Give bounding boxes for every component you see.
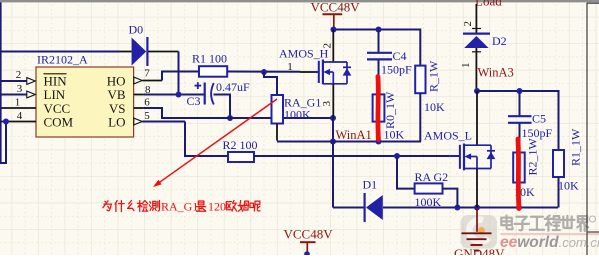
svg-text:Load: Load (475, 0, 502, 9)
svg-text:0.47uF: 0.47uF (216, 80, 250, 94)
wire R0_1W bottom (378, 122, 380, 142)
wire AMOS_H drain pin (332, 30, 334, 63)
wire C3 to VS wire (214, 95, 231, 119)
wire C5 to R2_1W (519, 123, 521, 153)
svg-text:AMOS_L: AMOS_L (424, 129, 472, 143)
resistor R0_1W (373, 94, 385, 121)
wire WinA1 vertical (332, 118, 334, 142)
wire WinA3 to C5 (519, 91, 521, 116)
wire gate node to RA_G1 (264, 72, 277, 95)
wire VS pin6 (134, 107, 144, 109)
svg-text:120: 120 (208, 200, 226, 214)
svg-text:WinA3: WinA3 (478, 66, 514, 80)
svg-text:R1_1W: R1_1W (569, 128, 583, 166)
IC U1 IR2102_A body (36, 67, 134, 137)
watermark underline (501, 233, 599, 235)
wire D0 anode from left edge (0, 51, 119, 53)
power VCC48V bottom symbol (300, 241, 316, 243)
svg-text:2: 2 (16, 69, 22, 81)
annotation text: 为什么检测RA_G1是120欧姆呢 (103, 201, 112, 211)
transistor Q-AMOS_L (459, 145, 461, 169)
svg-text:RA_G1: RA_G1 (161, 200, 198, 214)
svg-text:VCC48V: VCC48V (311, 0, 361, 15)
svg-text:100K: 100K (284, 108, 311, 122)
svg-text:4: 4 (17, 110, 23, 122)
wire HIN pin2 (0, 80, 27, 82)
wire RA_G2 right (443, 189, 458, 208)
svg-text:1: 1 (287, 61, 293, 73)
svg-text:5: 5 (144, 110, 150, 122)
wire AMOS_L source pin (476, 169, 478, 208)
wire gate-L to RA_G2 (397, 156, 415, 189)
junction gate-L node (394, 153, 400, 159)
wire R1 to AMOS_H gate (227, 71, 300, 73)
resistor R1_1W (553, 150, 564, 177)
transistor Q-AMOS_H (318, 61, 320, 83)
junction VCC-drain (331, 27, 337, 33)
wire C4 to R0_1W (378, 60, 380, 94)
wire RA_G1 bottom (276, 124, 278, 141)
junction VB-D0 (176, 92, 182, 98)
svg-text:2: 2 (462, 21, 474, 27)
junction WinA3 (474, 88, 480, 94)
svg-text:1: 1 (460, 63, 472, 69)
junction at bottom edge (304, 251, 310, 257)
junction WinA1-R0 (376, 139, 382, 145)
wire AMOS_L drain pin (476, 91, 478, 145)
svg-text:GND48V: GND48V (454, 246, 505, 255)
svg-text:R0_1W: R0_1W (383, 91, 397, 129)
svg-text:R1 100: R1 100 (192, 52, 227, 66)
svg-text:10K: 10K (384, 128, 405, 142)
svg-text:10K: 10K (558, 179, 579, 193)
pin 2 input triangle (27, 78, 36, 85)
diode D2 (463, 32, 490, 34)
resistor RA_G1 (272, 95, 284, 124)
junction on COM wire (3, 119, 9, 125)
capacitor C4 (367, 52, 392, 54)
svg-text:eeworld.com.cn: eeworld.com.cn (500, 234, 599, 251)
annotation red mark over R2_1W (518, 139, 519, 209)
ground GND48V symbol (476, 208, 478, 232)
wire WinA1 down to D1 (332, 142, 334, 208)
annotation red mark over R0_1W (375, 77, 380, 140)
svg-text:3: 3 (17, 83, 23, 95)
wire R2 to AMOS_L gate (254, 155, 450, 157)
annotation arrow line (159, 99, 277, 183)
svg-text:LIN: LIN (44, 87, 66, 102)
junction VCC-C4 (376, 27, 382, 33)
watermark text 电子工程世界 (501, 216, 512, 230)
svg-text:C5: C5 (532, 112, 546, 126)
wire WinA1 horizontal (277, 141, 421, 143)
svg-text:R_1W: R_1W (427, 60, 441, 92)
resistor R2 (228, 152, 254, 162)
svg-text:D1: D1 (363, 178, 378, 192)
wire LIN pin3 (0, 94, 27, 96)
diode D1 (364, 193, 366, 222)
wire VCC to C4 (378, 30, 380, 53)
pin 5 output triangle (134, 118, 143, 125)
wire along left edge (0, 2, 2, 163)
wire VCC bus (334, 30, 421, 66)
svg-text:LO: LO (108, 115, 125, 130)
capacitor C5 (508, 115, 532, 117)
capacitor C3 (204, 83, 206, 105)
pin 3 input triangle (27, 91, 36, 98)
svg-text:R2_1W: R2_1W (526, 137, 540, 175)
wire VCC pin1 (0, 107, 36, 109)
resistor RA_G2 (415, 183, 443, 193)
wire AMOS_H source pin (332, 84, 334, 118)
svg-text:3: 3 (321, 101, 333, 107)
junction WinA1 (330, 139, 336, 145)
svg-text:2: 2 (322, 43, 334, 49)
svg-text:100K: 100K (415, 195, 442, 209)
svg-text:RA G2: RA G2 (415, 170, 449, 184)
watermark logo (461, 215, 498, 249)
junction D1-RAG2 (454, 205, 460, 211)
resistor R_1W (415, 66, 425, 94)
wire R1_1W bottom (558, 177, 560, 208)
wire R2_1W bottom (518, 183, 520, 208)
wire D0 cathode to VB (148, 51, 178, 53)
svg-text:R2 100: R2 100 (223, 138, 258, 152)
svg-text:1: 1 (15, 97, 21, 109)
capacitor C3 plus sign (195, 85, 202, 87)
resistor R1 (199, 66, 227, 77)
svg-text:COM: COM (44, 115, 74, 130)
wire COM pin4 (0, 121, 36, 123)
pin 7 output triangle (134, 77, 143, 84)
svg-text:C4: C4 (393, 49, 407, 63)
junction WinA3-C5 (517, 88, 523, 94)
wire COM branch down-left (0, 122, 6, 164)
wire WinA3 horizontal (477, 91, 559, 150)
junction GND node (474, 205, 480, 211)
svg-text:VCC48V: VCC48V (284, 227, 334, 242)
svg-text:7: 7 (144, 68, 150, 80)
wire Load to D2 (475, 4, 477, 33)
wire VB pin8 (134, 94, 144, 96)
svg-text:C3: C3 (187, 94, 201, 108)
wire D2 to WinA3 (475, 48, 477, 91)
svg-text:VB: VB (107, 87, 125, 102)
diode D0 (132, 38, 147, 66)
power VCC48V top symbol (323, 13, 343, 15)
resistor R2_1W (513, 153, 525, 183)
svg-text:150pF: 150pF (522, 126, 553, 140)
svg-text:6: 6 (144, 97, 150, 109)
junction R2_1W bottom (516, 205, 522, 211)
junction VS-WinA1 (330, 115, 336, 121)
svg-text:150pF: 150pF (381, 63, 412, 77)
wire LO pin5 (142, 121, 185, 123)
wire HO pin7 (142, 80, 162, 82)
svg-text:10K: 10K (424, 100, 445, 114)
junction gate node (261, 69, 267, 75)
wire D1 anode to GND rail (383, 207, 558, 209)
svg-text:D2: D2 (492, 34, 507, 48)
svg-text:D0: D0 (129, 23, 144, 37)
svg-text:IR2102_A: IR2102_A (37, 53, 88, 67)
wire R_1W bottom (419, 93, 421, 141)
svg-text:WinA1: WinA1 (336, 128, 372, 142)
D2 pin end ticks (472, 28, 481, 30)
junction C3-VS (227, 115, 233, 121)
